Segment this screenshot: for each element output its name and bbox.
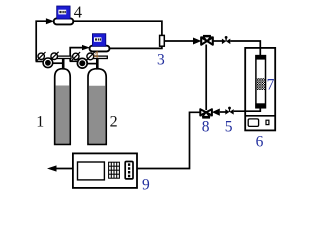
needle valve V5a (222, 36, 230, 44)
regulator R1 body-to-neck pipe (52, 62, 64, 64)
arrow from valve V5b toward valve 8 (212, 109, 220, 116)
svg-text:3: 3 (157, 51, 165, 68)
cylinder 2 neck (96, 58, 99, 69)
cylinder 1 neck (62, 58, 65, 69)
wire valve V5a to reactor tube 7 (230, 41, 260, 56)
arrow into valve T1 (193, 38, 201, 45)
three-way valve T1 (201, 35, 213, 45)
vent wire out of GC 9 (55, 168, 73, 170)
wire MFC 4b to mixer 3 (110, 46, 162, 48)
cylinder 1 gas fill (56, 86, 70, 144)
GC 9 case (73, 153, 137, 188)
regulator R2 bar (92, 56, 108, 58)
regulator R2 gauge right (86, 52, 95, 61)
svg-text:6: 6 (256, 134, 264, 151)
tube 7 bottom plug (255, 103, 266, 108)
regulator R2 body-to-neck pipe (86, 63, 97, 65)
wire mixer 3 to valve T1 (164, 40, 194, 42)
arrow into MFC 4b (82, 45, 90, 50)
controller button of 6 (266, 120, 269, 124)
GC 9 screen (78, 162, 105, 180)
arrow into MFC 4a (46, 18, 54, 24)
furnace divider (245, 115, 275, 117)
regulator R2 gauge left (72, 52, 81, 61)
cylinder 1 (55, 69, 70, 145)
svg-text:7: 7 (267, 76, 275, 93)
wire valve T1 down to valve 8 (205, 45, 207, 111)
svg-text:1: 1 (36, 114, 44, 131)
MFC 4a pill base (54, 18, 74, 24)
svg-text:4: 4 (93, 50, 99, 61)
wire regulator R1 stub (36, 61, 44, 63)
wire valve V5b to reactor tube bottom (234, 108, 261, 112)
MFC 4a display window (58, 10, 66, 15)
MFC 4b pill base (90, 46, 110, 52)
wire valve 8 to GC 9 (137, 112, 200, 168)
regulator R1 gauge left (37, 52, 46, 61)
furnace box 6 (245, 48, 275, 130)
MFC 4a blue body (57, 6, 70, 19)
regulator R1 body (43, 58, 53, 68)
wire MFC 4a to mixer 3 (73, 21, 162, 35)
GC 9 column module (125, 162, 133, 179)
svg-text:4: 4 (74, 3, 82, 22)
tube 7 catalyst bed (256, 78, 265, 90)
regulator R1 gauge right (50, 52, 59, 61)
MFC 4b blue body (92, 34, 105, 47)
svg-text:5: 5 (225, 118, 233, 135)
svg-text:2: 2 (110, 114, 118, 131)
three-way valve 8 (200, 109, 212, 118)
vent arrow (47, 165, 57, 171)
reactor tube 7 (256, 56, 266, 108)
wire arrow to valve V5b (220, 111, 226, 113)
wire regulator R2 stub (70, 60, 79, 62)
mixer/filter 3 (160, 35, 165, 46)
wire valve T1 to valve V5a (213, 40, 222, 42)
svg-text:8: 8 (202, 118, 210, 135)
cylinder 2 gas fill (89, 86, 105, 144)
MFC 4b display window (94, 37, 101, 42)
wire from regulator R2 up to MFC 4b (70, 48, 83, 62)
wire from regulator R1 up to MFC 4a (36, 21, 48, 61)
regulator R1 bar (57, 56, 71, 58)
regulator R2 body (77, 58, 87, 68)
needle valve V5b (225, 107, 233, 115)
cylinder 2 (88, 69, 106, 145)
svg-text:9: 9 (142, 177, 150, 194)
tube 7 top plug (255, 56, 266, 60)
controller display of 6 (248, 119, 258, 127)
GC 9 keypad (109, 162, 120, 178)
